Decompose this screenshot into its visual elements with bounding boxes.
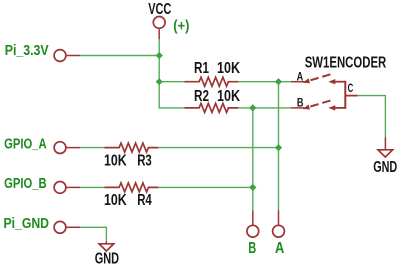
svg-text:GND: GND bbox=[373, 159, 397, 176]
svg-text:A: A bbox=[297, 69, 304, 83]
svg-text:R1: R1 bbox=[194, 60, 209, 77]
svg-text:R4: R4 bbox=[137, 192, 152, 209]
svg-text:SW1ENCODER: SW1ENCODER bbox=[305, 55, 387, 72]
svg-text:10K: 10K bbox=[217, 60, 241, 77]
svg-text:C: C bbox=[348, 81, 354, 95]
svg-text:R2: R2 bbox=[194, 88, 209, 105]
svg-text:A: A bbox=[275, 240, 285, 257]
svg-text:(+): (+) bbox=[173, 17, 189, 34]
svg-text:R3: R3 bbox=[137, 152, 152, 169]
svg-text:Pi_3.3V: Pi_3.3V bbox=[5, 42, 49, 59]
svg-text:GPIO_A: GPIO_A bbox=[4, 135, 47, 152]
svg-text:B: B bbox=[248, 240, 256, 257]
svg-text:10K: 10K bbox=[104, 152, 127, 169]
svg-text:GPIO_B: GPIO_B bbox=[4, 175, 47, 192]
svg-text:B: B bbox=[297, 96, 304, 110]
svg-text:GND: GND bbox=[95, 251, 119, 267]
svg-text:Pi_GND: Pi_GND bbox=[4, 215, 50, 232]
svg-text:10K: 10K bbox=[104, 192, 127, 209]
svg-text:VCC: VCC bbox=[148, 1, 171, 18]
svg-text:10K: 10K bbox=[217, 88, 241, 105]
